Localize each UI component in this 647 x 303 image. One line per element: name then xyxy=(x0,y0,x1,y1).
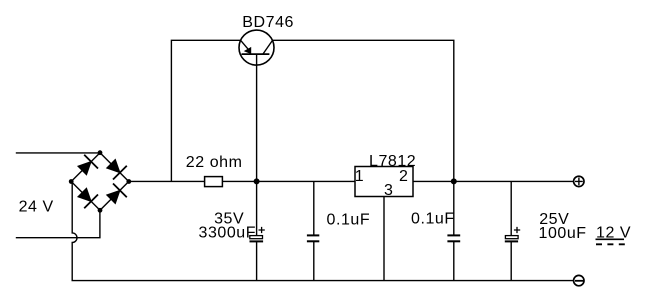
node collector-rail junction xyxy=(451,178,457,184)
node bridge bottom xyxy=(98,208,103,213)
wire positive rail left xyxy=(129,180,205,182)
wire rail mid xyxy=(222,180,355,182)
diode D4 bottom-right xyxy=(100,182,129,211)
capacitor C1 3300uF electrolytic xyxy=(250,181,265,280)
regulator U1 L7812 box xyxy=(355,167,413,197)
wire collector run xyxy=(272,40,453,181)
svg-text:0.1uF: 0.1uF xyxy=(327,211,371,228)
terminal positive xyxy=(574,176,584,186)
capacitor C2 0.1uF ceramic xyxy=(307,181,319,280)
svg-text:1: 1 xyxy=(355,168,364,185)
terminal negative xyxy=(574,275,584,285)
resistor R1 xyxy=(205,177,223,187)
node bridge right xyxy=(126,179,131,184)
svg-text:3300uF: 3300uF xyxy=(199,225,257,242)
diode D2 top-right xyxy=(100,153,129,182)
DC symbol solid line xyxy=(596,238,625,240)
wire emitter riser xyxy=(171,40,240,181)
wire base lead xyxy=(256,54,258,181)
node bridge top xyxy=(98,150,103,155)
svg-text:2: 2 xyxy=(399,168,408,185)
svg-text:3: 3 xyxy=(384,182,393,199)
wire regulator pin3 xyxy=(383,197,385,281)
svg-text:100uF: 100uF xyxy=(539,225,587,242)
svg-text:BD746: BD746 xyxy=(242,14,294,31)
node bridge left xyxy=(69,179,74,184)
svg-text:22 ohm: 22 ohm xyxy=(186,154,243,171)
svg-text:24 V: 24 V xyxy=(19,198,54,215)
wire AC input top xyxy=(16,152,100,154)
wire rail right xyxy=(413,180,574,182)
diode D3 bottom-left xyxy=(71,182,100,211)
capacitor C4 100uF electrolytic xyxy=(505,181,520,280)
svg-text:L7812: L7812 xyxy=(369,153,416,170)
transistor Q1 BD746 xyxy=(239,30,274,65)
svg-text:0.1uF: 0.1uF xyxy=(411,211,455,228)
DC symbol dashed line xyxy=(596,243,625,245)
wire negative rail with hop xyxy=(72,182,573,281)
wire AC input bottom xyxy=(16,210,100,237)
node base-rail junction xyxy=(254,178,260,184)
capacitor C3 0.1uF ceramic xyxy=(447,181,460,280)
svg-text:12 V: 12 V xyxy=(596,225,631,242)
diode D1 top-left xyxy=(71,153,100,182)
